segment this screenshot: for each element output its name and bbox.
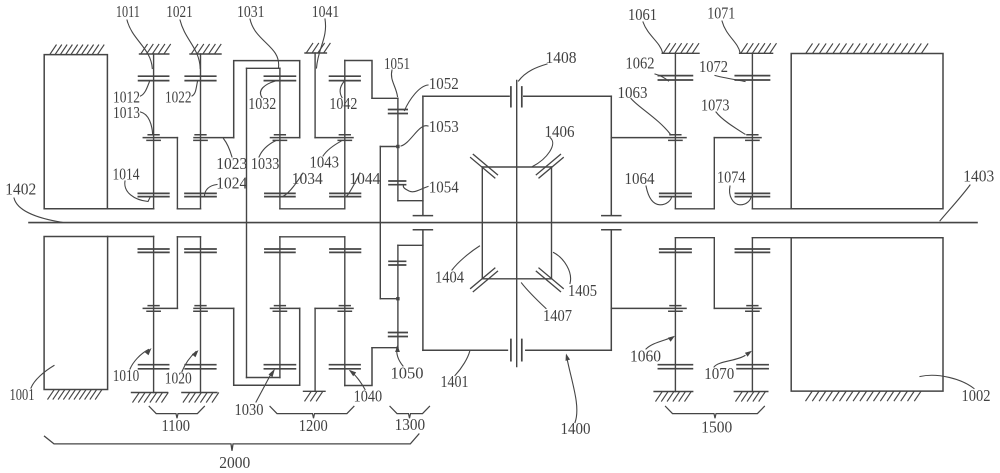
shaft wall 1042-1044 <box>344 61 346 209</box>
shaft 1030 long (inner box left wall) <box>246 68 248 377</box>
ground floor of shaft 1010 <box>132 392 168 394</box>
leader 1051 <box>391 70 397 97</box>
wire: lower 1053 link <box>380 298 398 300</box>
clutch 1070-mid (mirror of 1073) <box>714 306 761 312</box>
clutch 1033 <box>271 135 300 141</box>
gear 1050-lower (mirror of 1052) <box>389 333 408 337</box>
bevel teeth 1404 left <box>471 268 498 292</box>
clutch housing 1042 box <box>345 61 372 99</box>
clutch hub 1031 inner box top <box>247 67 280 69</box>
ground floor of shaft 1040 <box>304 390 326 392</box>
leader 1073 <box>716 112 745 134</box>
gearbox 1400 right wall upper <box>610 96 612 215</box>
leader 1010 <box>130 350 149 370</box>
gear 1032 <box>264 76 295 80</box>
svg-text:1072: 1072 <box>699 57 728 76</box>
planet post left <box>481 167 483 279</box>
svg-text:1404: 1404 <box>435 268 464 287</box>
svg-text:1020: 1020 <box>165 369 192 388</box>
leader 1033 <box>259 141 276 157</box>
brace 1200 <box>270 406 354 418</box>
ground ceiling of shaft 1061 <box>662 52 699 54</box>
gear 1044 <box>330 193 361 196</box>
gear 1064 <box>660 193 691 196</box>
svg-text:1014: 1014 <box>113 164 140 183</box>
arrow 1030 <box>269 369 276 378</box>
wire: riser mirror <box>176 237 178 309</box>
leader 1408 <box>519 64 548 81</box>
svg-text:1030: 1030 <box>235 400 264 419</box>
shaft 1040 lower vertical <box>314 308 316 391</box>
gear 1042 <box>330 76 361 80</box>
wire: bottom link 1011-1021 <box>177 208 200 210</box>
wire: 1053 to drop line <box>380 146 398 148</box>
ground hatching floor 1070 <box>736 392 765 401</box>
svg-text:1002: 1002 <box>962 386 991 405</box>
planet post right <box>551 167 553 279</box>
ground floor of shaft 1060 <box>654 391 693 393</box>
leader 1403 <box>940 185 970 221</box>
ground hatching below lower-right block <box>806 392 921 401</box>
ground floor of shaft 1070 <box>734 391 768 393</box>
housing block upper-right <box>791 54 943 209</box>
housing block upper-left <box>44 55 107 209</box>
svg-text:1024: 1024 <box>216 174 247 193</box>
leader 1024 <box>205 185 218 197</box>
bevel teeth 1405 right <box>536 268 563 292</box>
shaft 1041 <box>314 53 316 138</box>
gear 1020-lower (mirror of 1022) <box>185 365 216 369</box>
leader 1063 <box>631 99 671 136</box>
svg-text:1033: 1033 <box>251 154 279 173</box>
shaft 1050 vertical <box>397 245 399 347</box>
wire: top link 1030-1040 <box>280 236 345 238</box>
svg-text:1073: 1073 <box>701 96 730 115</box>
leader 1011 <box>127 20 152 69</box>
ground hatching floor 1060 <box>656 392 691 401</box>
arrow 1010 <box>145 348 152 355</box>
gear 1060-upper (mirror of 1064) <box>660 249 691 252</box>
clutch 1023 <box>194 135 234 141</box>
leader 1074 <box>730 186 751 205</box>
ground hatching floor 1010 <box>133 393 168 402</box>
leader 1061 <box>643 22 663 53</box>
leader 1041 <box>317 19 326 68</box>
wire: L-link mirror to gearbox wall <box>398 244 423 246</box>
gear 1010-upper (mirror of 1014) <box>138 249 169 252</box>
svg-text:1408: 1408 <box>546 48 577 67</box>
svg-text:1040: 1040 <box>354 387 383 406</box>
wire: drop from clutch 1013 <box>176 138 178 209</box>
ground hatching above upper-left block <box>50 45 104 54</box>
gear 1020-upper (mirror of 1024) <box>185 249 216 252</box>
brace 1500 <box>666 406 765 418</box>
clutch 1020-mid (mirror of 1023) <box>194 306 234 312</box>
gear 1010-lower (mirror of 1012) <box>139 365 169 369</box>
svg-text:1032: 1032 <box>248 94 276 113</box>
ground ceiling of shaft 1041 <box>305 52 326 54</box>
coupling cap left upper <box>413 215 432 217</box>
coupling cap right lower <box>602 229 621 231</box>
shaft 1011 <box>153 54 155 209</box>
leader 1030 <box>256 373 272 402</box>
svg-text:1300: 1300 <box>395 415 426 434</box>
leader 1032 <box>260 81 275 98</box>
svg-text:1041: 1041 <box>312 2 340 21</box>
svg-text:1062: 1062 <box>626 54 655 73</box>
arrow 1070 <box>745 351 752 357</box>
svg-text:1074: 1074 <box>717 167 746 186</box>
ground hatching floor 1020 <box>183 393 218 402</box>
svg-text:1053: 1053 <box>429 117 459 136</box>
svg-text:1034: 1034 <box>292 169 323 188</box>
housing block lower-right <box>791 238 943 391</box>
svg-text:1051: 1051 <box>384 54 410 73</box>
wire: riser mirror 1070 <box>713 238 715 309</box>
wire: 1071 shaft to right block <box>752 208 791 210</box>
leader 1031 <box>250 19 279 68</box>
clutch housing 1040 box bottom <box>345 348 372 386</box>
svg-text:1500: 1500 <box>701 418 732 437</box>
gear 1012 <box>139 76 169 80</box>
wire: L-link 1054 to gearbox wall <box>398 200 423 202</box>
leader 1064 <box>646 186 672 205</box>
leader 1070 <box>714 356 745 368</box>
gearbox 1400 bottom edge <box>423 349 611 351</box>
ground hatching above upper-right block <box>806 44 928 53</box>
svg-text:1071: 1071 <box>707 4 735 23</box>
shaft segment inner box right wall lower <box>279 237 281 378</box>
bevel teeth 1406 left <box>471 154 498 178</box>
gear 1014 <box>138 193 169 196</box>
svg-text:1401: 1401 <box>441 372 469 391</box>
svg-text:1064: 1064 <box>625 169 655 188</box>
arrow 1040 <box>349 370 356 377</box>
svg-text:1021: 1021 <box>166 2 193 21</box>
svg-text:1403: 1403 <box>963 166 994 185</box>
housing block lower-left <box>44 237 108 390</box>
svg-text:1054: 1054 <box>429 177 459 196</box>
ground hatching floor 1040 <box>305 392 323 401</box>
leader 1021 <box>180 20 200 69</box>
gear 1030-lower (mirror of 1032) <box>264 365 295 369</box>
ground hatching 1061 <box>664 44 699 53</box>
gear 1070-lower (mirror of 1072) <box>737 365 768 369</box>
coupling cap left lower <box>413 229 432 231</box>
leader 1407 <box>522 283 547 309</box>
ground hatching below lower-left block <box>48 390 102 399</box>
bevel gear 1404/1405 bottom bar <box>482 278 551 280</box>
svg-text:1031: 1031 <box>237 2 265 21</box>
svg-text:1013: 1013 <box>113 103 140 122</box>
leader 1001 <box>31 366 54 389</box>
gearbox 1400 left wall lower <box>422 230 424 350</box>
shaft 1021 <box>200 54 202 209</box>
arrow 1060 <box>668 336 675 342</box>
svg-text:1405: 1405 <box>568 281 597 300</box>
shaft 1051 vertical <box>397 98 399 200</box>
gear 1050-upper (mirror of 1054) <box>389 261 406 265</box>
shaft 1061 <box>674 53 676 209</box>
leader 1042 <box>340 82 344 98</box>
wire: U top 1060 <box>675 237 714 239</box>
ground ceiling of shaft 1011 <box>140 53 169 55</box>
svg-text:1043: 1043 <box>310 152 340 171</box>
gear 1072 <box>735 76 769 80</box>
gear 1062 <box>658 76 692 80</box>
shaft 1407 vertical center <box>516 80 518 366</box>
leader 1401 <box>455 351 470 376</box>
svg-text:1061: 1061 <box>628 5 657 24</box>
gear 1030-upper (mirror of 1034) <box>265 249 295 252</box>
svg-text:1402: 1402 <box>5 179 36 198</box>
shaft 1071 <box>751 53 753 209</box>
clutch 1010-mid (mirror of 1013) <box>143 306 177 312</box>
leader 1404 <box>452 246 480 270</box>
gearbox 1400 left wall upper <box>422 96 424 215</box>
leader 1022 <box>192 82 198 97</box>
leader 1053 <box>401 126 428 146</box>
wire: bottom edge of upper-left block to shaft 1011 <box>44 208 153 210</box>
gear 1040-lower (mirror of 1042) <box>330 365 361 369</box>
shaft 1070 <box>751 238 753 392</box>
clutch 1408 plates <box>511 87 522 107</box>
clutch 1063 <box>611 135 686 141</box>
shaft 1060 <box>674 238 676 392</box>
leader 1054 <box>403 185 428 192</box>
leader 1400 <box>567 356 577 423</box>
brace 1100 <box>149 406 204 418</box>
leader 1062 <box>655 74 669 81</box>
clutch 1030-mid (mirror of 1033) <box>271 306 300 312</box>
clutch 1040-mid (mirror of 1043) <box>315 306 353 312</box>
shaft segment inner box right wall <box>279 68 281 209</box>
gear 1070-upper (mirror of 1074) <box>735 249 769 252</box>
shaft 1020 <box>200 237 202 393</box>
leader 1012 <box>141 82 150 97</box>
gear 1060-lower (mirror of 1062) <box>658 365 692 369</box>
bevel gear 1406 top bar <box>482 166 551 168</box>
svg-text:1011: 1011 <box>116 2 140 21</box>
ground hatching 1021 <box>192 44 221 53</box>
gear 1034 <box>265 193 295 196</box>
arrow 1020 <box>192 350 199 357</box>
leader 1043 <box>323 141 341 156</box>
node lower junction dot <box>396 297 399 300</box>
gear 1052 <box>389 110 408 114</box>
brace 1300 <box>390 406 430 418</box>
leader 1405 <box>554 253 571 284</box>
leader 1050 <box>397 347 403 366</box>
leader 1052 <box>405 85 429 111</box>
ground ceiling of shaft 1021 <box>190 53 221 55</box>
arrow 1050 <box>395 345 400 352</box>
gear 1022 <box>185 76 216 80</box>
svg-text:1406: 1406 <box>545 122 575 141</box>
leader 1014 <box>125 181 150 202</box>
svg-text:1070: 1070 <box>704 364 734 383</box>
ground ceiling of shaft 1071 <box>740 52 773 54</box>
shaft 1010 <box>153 237 155 393</box>
wire: bottom link 1031-1041 <box>280 208 345 210</box>
ground floor of shaft 1020 <box>182 392 217 394</box>
leader 1060 <box>646 338 670 349</box>
svg-text:1050: 1050 <box>391 363 424 382</box>
wire: top edge of lower-left block to shaft 1010 <box>108 236 154 238</box>
leader 1034 <box>283 173 303 196</box>
gearbox 1400 top edge <box>423 95 611 97</box>
clutch 1043 <box>315 135 353 141</box>
clutch drum 1030 outer box <box>234 308 300 385</box>
main shaft 1402/1403 center line <box>29 222 977 224</box>
wire: gearbox to clutch 1063 <box>610 137 612 139</box>
wire: U bottom 1061 <box>675 208 714 210</box>
node 1053 junction dot <box>396 145 399 148</box>
svg-text:1010: 1010 <box>113 366 140 385</box>
arrow 1400 <box>566 354 571 361</box>
gear 1024 <box>185 193 216 196</box>
wire: riser 1073 <box>713 138 715 209</box>
leader 1040 <box>351 371 366 390</box>
svg-text:1100: 1100 <box>162 416 191 435</box>
clutch hub 1030 inner box bottom <box>247 377 280 379</box>
wire: drop line through main shaft <box>379 147 381 299</box>
ground hatching 1071 <box>741 44 776 53</box>
leader 1402 <box>14 198 62 222</box>
ground hatching 1041 <box>307 43 331 52</box>
svg-text:1042: 1042 <box>329 94 357 113</box>
leader 1071 <box>722 21 740 53</box>
bevel teeth 1406 right <box>536 154 563 178</box>
bracket 2000 <box>45 434 419 451</box>
gear 1074 <box>735 193 769 196</box>
svg-text:1063: 1063 <box>618 83 648 102</box>
shaft wall 1040 vertical <box>344 237 346 386</box>
wire: step to 1051 <box>372 97 398 99</box>
clutch 1013 <box>143 135 177 141</box>
clutch drum 1031 outer box <box>234 61 300 138</box>
svg-text:1200: 1200 <box>299 416 328 435</box>
clutch 1060-mid (mirror of 1063) <box>611 306 686 312</box>
gear 1040-upper (mirror of 1044) <box>330 249 361 252</box>
leader 1020 <box>182 352 196 372</box>
gearbox 1400 right wall lower <box>610 230 612 350</box>
leader 1023 <box>224 139 233 157</box>
gear 1054 <box>389 181 406 185</box>
svg-text:1407: 1407 <box>543 306 572 325</box>
leader 1013 <box>141 112 153 134</box>
leader 1072 <box>715 76 745 82</box>
wire: top link 1010-1020 <box>177 236 200 238</box>
clutch 1400-bottom plates <box>511 340 522 361</box>
svg-text:1022: 1022 <box>165 88 192 107</box>
wire: 1070 shaft to right block lower <box>752 237 791 239</box>
ground hatching 1011 <box>141 44 170 53</box>
wire: step mirror to 1050 <box>372 347 398 349</box>
svg-text:1052: 1052 <box>429 74 459 93</box>
coupling cap right upper <box>602 215 621 217</box>
leader 1406 <box>533 138 553 167</box>
svg-text:2000: 2000 <box>219 453 250 472</box>
leader 1002 <box>920 375 974 388</box>
leader 1044 <box>347 173 361 196</box>
clutch 1073 <box>714 135 761 141</box>
